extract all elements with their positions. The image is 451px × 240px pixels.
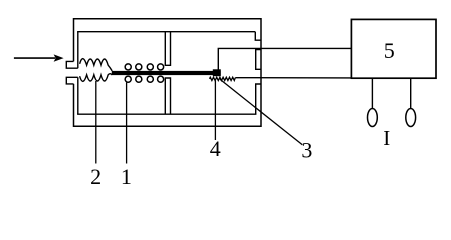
terminal ellipse left [368, 109, 378, 127]
rod / heated bar (component 4) [112, 71, 221, 75]
svg-text:I: I [383, 126, 390, 150]
svg-text:4: 4 [210, 136, 221, 161]
partition wall (chamber divider) lower part [165, 78, 170, 114]
inner lining left wall lower segment [77, 77, 79, 114]
diagonal leader line to label 3 [220, 79, 302, 145]
inner lining right wall middle segment with caps [256, 50, 261, 70]
inner lining right wall lower segment with cap [256, 84, 261, 114]
svg-text:2: 2 [90, 164, 101, 189]
leader line to label 2 [95, 81, 97, 164]
bottom wire from zigzag to box 5 [235, 77, 351, 79]
top wire from rod to box 5 [218, 48, 351, 71]
junction blob at rod end [213, 69, 221, 76]
zigzag thermocouple element (component 3) [210, 77, 236, 80]
terminal ellipse right [406, 109, 416, 127]
box 5 (measuring instrument) [351, 19, 436, 78]
arrow (input beam arrow) [14, 54, 64, 61]
outer enclosure box [74, 19, 262, 127]
filament wavy element bottom (component 2) [80, 74, 113, 82]
inner lining left wall upper segment [77, 32, 79, 68]
svg-text:1: 1 [121, 164, 132, 189]
terminal wire right [410, 78, 412, 108]
coil circles bottom row (component 1) [125, 76, 164, 82]
leader line to label 1 [126, 83, 128, 164]
coil circles top row (component 1) [125, 64, 164, 70]
inner lining bottom wall [77, 113, 256, 115]
terminal wire left [371, 78, 373, 108]
top aperture flange (foot of upper left wall) [66, 61, 78, 68]
inner lining right wall step (top) [255, 32, 261, 41]
inner lining top wall [77, 31, 255, 33]
leader line to label 4 [214, 81, 216, 141]
svg-text:5: 5 [384, 38, 395, 63]
filament wavy element top (component 2) [80, 59, 113, 71]
bottom aperture flange (foot of lower left wall) [66, 77, 78, 84]
partition wall (chamber divider) upper part [165, 32, 170, 66]
svg-text:3: 3 [301, 138, 312, 163]
